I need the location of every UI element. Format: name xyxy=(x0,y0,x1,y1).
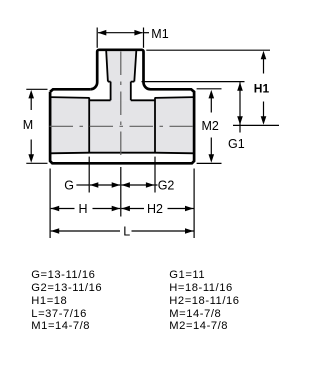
branch stop extension line xyxy=(142,81,245,83)
G dimension line xyxy=(90,184,120,186)
left face extension line xyxy=(49,169,51,239)
vertical centerline xyxy=(120,52,122,159)
M1 extension line left xyxy=(96,28,98,48)
right stop extension line xyxy=(154,157,156,193)
dimension table left column xyxy=(31,269,102,334)
branch through-bore walls xyxy=(111,82,131,101)
M bottom extension line xyxy=(26,162,47,164)
svg-text:H: H xyxy=(79,202,88,216)
M2 lower arrow xyxy=(210,138,212,158)
G1 arrow up xyxy=(237,82,243,91)
dimension table right column xyxy=(169,269,239,334)
H dimension line right part xyxy=(93,208,121,210)
svg-text:L: L xyxy=(123,224,130,238)
M top extension line xyxy=(26,88,47,90)
M1 extension line right xyxy=(143,28,145,48)
H2 dimension line right part xyxy=(168,208,194,210)
L dimension line right part xyxy=(132,230,194,232)
svg-text:M2: M2 xyxy=(202,119,219,133)
G1 dimension line xyxy=(239,82,241,132)
svg-text:G: G xyxy=(64,178,74,192)
H2 dimension line left part xyxy=(121,208,144,210)
svg-text:G2: G2 xyxy=(158,178,175,192)
M1 arrow left xyxy=(98,30,107,36)
branch socket stop shoulders xyxy=(108,81,134,83)
main through-bore bottom line xyxy=(89,152,155,154)
left socket bore lines xyxy=(50,97,89,153)
right socket bore lines xyxy=(155,97,194,153)
bore fill branch xyxy=(106,50,136,101)
M2 bottom extension line xyxy=(197,162,222,164)
svg-text:G1: G1 xyxy=(228,137,245,151)
left stop extension line xyxy=(88,157,90,193)
svg-text:M1: M1 xyxy=(151,27,168,41)
G leader xyxy=(76,184,89,186)
branch socket bore lines xyxy=(106,51,136,82)
L arrow right xyxy=(185,228,194,234)
right face extension line xyxy=(193,169,195,239)
G arrow left xyxy=(90,182,99,188)
G arrow right xyxy=(112,182,121,188)
branch outline xyxy=(90,50,150,90)
bore fill main run xyxy=(50,97,194,153)
H dimension line left part xyxy=(51,208,75,210)
H arrow right xyxy=(112,206,121,212)
left socket stop xyxy=(88,97,90,153)
M1 leader stub xyxy=(144,32,150,34)
horizontal centerline xyxy=(50,125,196,127)
G2 arrow left xyxy=(121,182,129,188)
L dimension line left part xyxy=(51,230,120,232)
H1 top extension line xyxy=(146,49,270,51)
M1 arrow right xyxy=(134,30,143,36)
bore fill main through band xyxy=(89,100,155,152)
H2 arrow right xyxy=(185,206,194,212)
H1 lower arrow xyxy=(263,102,265,120)
G2 leader xyxy=(155,184,158,186)
G1 arrow down xyxy=(237,116,243,125)
right socket stop xyxy=(154,97,156,153)
H arrow left xyxy=(51,206,60,212)
M upper arrow xyxy=(30,95,32,110)
M2 top extension line xyxy=(197,88,222,90)
svg-text:H1: H1 xyxy=(254,82,270,96)
M lower arrow xyxy=(30,140,32,158)
G2 dimension line xyxy=(121,184,154,186)
main through-bore top lines xyxy=(89,99,155,101)
L arrow left xyxy=(51,228,60,234)
svg-text:M: M xyxy=(23,118,33,132)
center extension line xyxy=(120,167,122,217)
M2 upper arrow xyxy=(210,95,212,113)
H1 upper arrow xyxy=(263,56,265,74)
H2 arrow left xyxy=(121,206,129,212)
svg-text:H2: H2 xyxy=(147,202,163,216)
tee body outline xyxy=(50,89,194,163)
M1 dimension line xyxy=(98,32,143,34)
centerline extension line right xyxy=(233,124,279,126)
G2 arrow right xyxy=(146,182,155,188)
